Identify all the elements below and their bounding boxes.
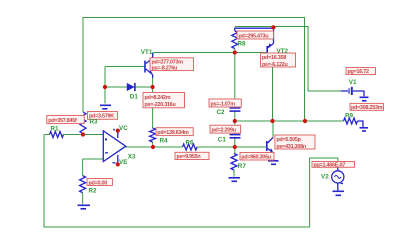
svg-text:R3: R3 bbox=[90, 119, 99, 126]
svg-text:R9: R9 bbox=[345, 113, 354, 120]
svg-text:VE: VE bbox=[119, 159, 127, 166]
svg-text:pd=357.845f: pd=357.845f bbox=[48, 118, 77, 124]
svg-text:ps=-6.122u: ps=-6.122u bbox=[262, 62, 288, 68]
svg-text:ps=-8.276u: ps=-8.276u bbox=[152, 66, 178, 72]
svg-text:ps=431.308n: ps=431.308n bbox=[276, 144, 305, 150]
svg-text:pd=295.473u: pd=295.473u bbox=[239, 33, 269, 39]
svg-text:pd=5.505p: pd=5.505p bbox=[276, 137, 301, 143]
svg-text:pg=16.72: pg=16.72 bbox=[348, 69, 369, 75]
svg-text:pd=16.358: pd=16.358 bbox=[262, 55, 286, 61]
svg-text:R4: R4 bbox=[160, 138, 169, 145]
svg-text:R7: R7 bbox=[238, 163, 247, 170]
svg-text:R8: R8 bbox=[238, 41, 247, 48]
svg-text:X3: X3 bbox=[128, 154, 136, 161]
svg-text:R6: R6 bbox=[186, 140, 195, 147]
svg-text:pd=0.00: pd=0.00 bbox=[89, 180, 108, 186]
svg-text:VT1: VT1 bbox=[141, 49, 153, 56]
svg-text:ps=-220.316u: ps=-220.316u bbox=[145, 102, 176, 108]
svg-text:V1: V1 bbox=[349, 79, 357, 86]
svg-text:pd=308.253m: pd=308.253m bbox=[351, 105, 383, 111]
svg-text:C1: C1 bbox=[218, 137, 227, 144]
svg-text:V2: V2 bbox=[321, 174, 329, 181]
svg-text:R1: R1 bbox=[51, 126, 60, 133]
svg-text:R2: R2 bbox=[89, 188, 98, 195]
svg-text:pd=960.305u: pd=960.305u bbox=[241, 155, 271, 161]
svg-text:pd=8.242m: pd=8.242m bbox=[145, 95, 171, 101]
svg-text:pd=2.209u: pd=2.209u bbox=[212, 127, 236, 133]
svg-text:ps=-1.07m: ps=-1.07m bbox=[211, 101, 236, 107]
svg-text:ps=9.955n: ps=9.955n bbox=[177, 154, 201, 160]
svg-text:pg=1.466E-07: pg=1.466E-07 bbox=[314, 162, 346, 168]
svg-text:C2: C2 bbox=[217, 109, 226, 116]
svg-text:D1: D1 bbox=[130, 94, 139, 101]
svg-text:pd=277.073m: pd=277.073m bbox=[152, 60, 184, 66]
svg-text:pd=139.634m: pd=139.634m bbox=[157, 130, 189, 136]
svg-text:VC: VC bbox=[119, 125, 128, 132]
svg-text:VT2: VT2 bbox=[277, 48, 289, 55]
